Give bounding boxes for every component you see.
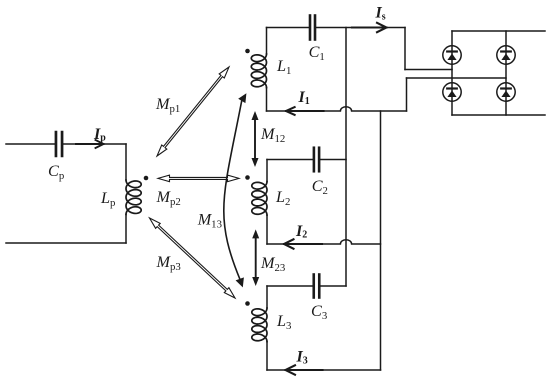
- svg-text:I2: I2: [295, 223, 307, 241]
- svg-text:Ip: Ip: [93, 126, 106, 144]
- svg-text:M12: M12: [260, 125, 285, 145]
- svg-text:Mp1: Mp1: [155, 95, 180, 115]
- svg-text:L3: L3: [276, 312, 291, 332]
- svg-text:I3: I3: [296, 349, 308, 367]
- svg-text:C3: C3: [311, 302, 327, 322]
- svg-text:L1: L1: [276, 57, 291, 77]
- svg-text:Mp2: Mp2: [156, 188, 181, 208]
- svg-text:Mp3: Mp3: [156, 253, 181, 273]
- svg-text:Lp: Lp: [100, 189, 115, 209]
- svg-text:I1: I1: [298, 89, 310, 107]
- svg-text:L2: L2: [275, 188, 290, 208]
- svg-text:Cp: Cp: [48, 162, 64, 182]
- svg-text:C2: C2: [312, 177, 328, 197]
- svg-text:Is: Is: [375, 5, 386, 23]
- svg-text:M23: M23: [260, 254, 285, 274]
- svg-text:C1: C1: [309, 43, 325, 63]
- svg-text:M13: M13: [197, 211, 222, 231]
